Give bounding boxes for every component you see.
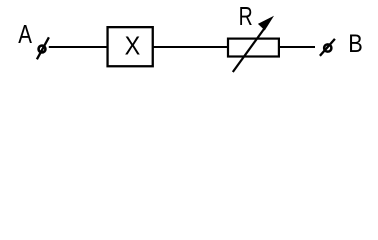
variable resistor R body <box>228 39 279 57</box>
terminal A (phi symbol) <box>37 37 49 59</box>
svg-text:B: B <box>348 30 363 58</box>
variable resistor arrowhead <box>258 16 274 31</box>
variable resistor arrow shaft <box>233 29 264 72</box>
svg-text:A: A <box>18 20 32 49</box>
wire R to B <box>280 46 315 48</box>
svg-text:R: R <box>239 1 253 30</box>
wire X to R <box>153 46 228 48</box>
terminal B (phi symbol) <box>320 39 335 56</box>
wire A to X <box>49 46 108 48</box>
component X box <box>108 27 153 66</box>
svg-text:X: X <box>125 33 141 61</box>
